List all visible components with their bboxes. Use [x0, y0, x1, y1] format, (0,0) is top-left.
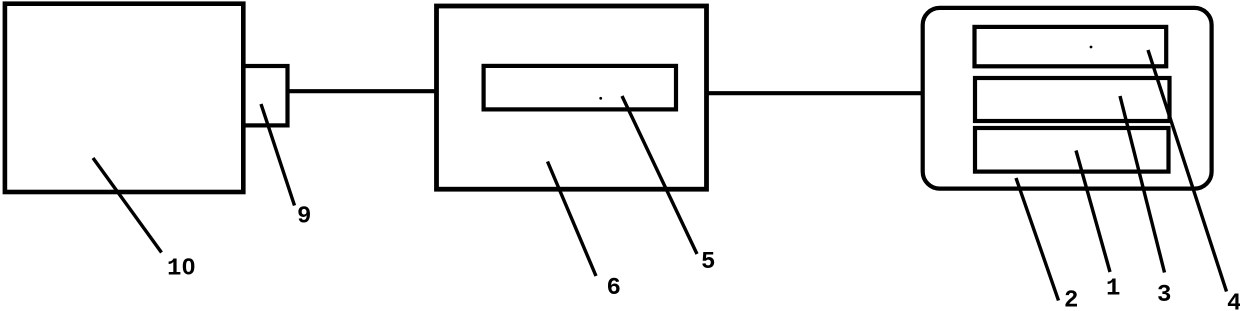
dot inside block 5 — [599, 97, 602, 100]
dot inside block 4 — [1090, 46, 1093, 49]
leader line 4 — [1148, 50, 1227, 292]
svg-text:10: 10 — [167, 256, 196, 283]
svg-text:4: 4 — [1227, 291, 1240, 311]
svg-text:6: 6 — [607, 275, 621, 302]
leader line 5 — [622, 96, 697, 254]
block 6 (middle rectangle) — [437, 6, 707, 189]
leader line 1 — [1076, 151, 1110, 273]
block 3 (middle inner rectangle) — [975, 78, 1170, 121]
svg-text:2: 2 — [1064, 288, 1078, 311]
leader line 6 — [548, 162, 597, 277]
block 9 (small rectangle on right side of block 10) — [243, 66, 287, 125]
wire (block 9 to block 6) — [287, 89, 437, 93]
leader line 3 — [1120, 96, 1165, 273]
leader line 9 — [261, 104, 295, 206]
svg-text:9: 9 — [297, 204, 311, 231]
block 1/2 (bottom inner rectangle) — [975, 128, 1169, 172]
leader line 10 — [93, 158, 162, 253]
svg-text:1: 1 — [1106, 276, 1120, 303]
leader line 2 — [1016, 178, 1059, 301]
wire (block 6 to rounded block) — [707, 91, 923, 95]
block 4 (top inner rectangle) — [975, 27, 1167, 66]
svg-text:3: 3 — [1157, 282, 1171, 309]
svg-text:5: 5 — [701, 249, 715, 276]
rounded enclosure (right block) — [923, 8, 1212, 189]
block 5 (inner rectangle of block 6) — [484, 66, 676, 110]
block 10 (large rectangle, left) — [5, 4, 243, 192]
